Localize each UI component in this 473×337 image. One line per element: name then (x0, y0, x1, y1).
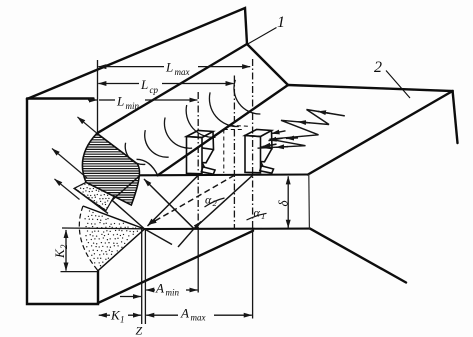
svg-text:2: 2 (374, 59, 382, 76)
svg-text:2: 2 (213, 198, 218, 208)
svg-text:max: max (191, 313, 206, 323)
svg-text:Z: Z (136, 324, 143, 337)
svg-text:L: L (165, 60, 173, 75)
svg-text:1: 1 (120, 315, 125, 325)
svg-text:A: A (180, 306, 189, 321)
svg-text:1: 1 (261, 211, 265, 221)
svg-text:A: A (155, 281, 164, 296)
svg-text:min: min (166, 288, 180, 298)
svg-text:max: max (175, 67, 190, 77)
svg-text:L: L (116, 94, 124, 109)
svg-text:2: 2 (59, 244, 69, 249)
svg-text:L: L (140, 77, 148, 92)
svg-text:α: α (254, 206, 261, 220)
svg-text:δ: δ (276, 200, 291, 207)
svg-text:min: min (126, 101, 140, 111)
svg-text:cp: cp (150, 85, 159, 95)
svg-text:α: α (205, 193, 212, 207)
svg-text:1: 1 (277, 14, 285, 31)
